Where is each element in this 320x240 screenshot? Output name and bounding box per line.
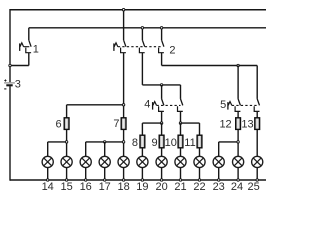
svg-text:23: 23	[213, 181, 225, 190]
svg-text:17: 17	[99, 181, 111, 190]
svg-text:21: 21	[174, 181, 186, 190]
svg-text:11: 11	[184, 137, 195, 149]
svg-text:7: 7	[113, 118, 119, 130]
svg-text:3: 3	[15, 78, 21, 90]
svg-text:18: 18	[117, 181, 129, 190]
svg-text:24: 24	[231, 181, 243, 190]
svg-text:20: 20	[155, 181, 167, 190]
svg-text:5: 5	[220, 99, 226, 111]
svg-text:2: 2	[169, 44, 175, 56]
svg-text:19: 19	[136, 181, 148, 190]
svg-text:15: 15	[60, 181, 72, 190]
svg-text:1: 1	[33, 43, 39, 55]
svg-text:16: 16	[80, 181, 92, 190]
svg-text:25: 25	[247, 181, 259, 190]
svg-text:12: 12	[219, 118, 231, 130]
svg-text:9: 9	[151, 137, 157, 149]
svg-text:4: 4	[144, 99, 150, 111]
svg-text:22: 22	[193, 181, 205, 190]
svg-text:13: 13	[241, 118, 253, 130]
svg-text:10: 10	[165, 137, 177, 149]
svg-text:14: 14	[42, 181, 54, 190]
svg-text:8: 8	[132, 137, 138, 149]
svg-text:6: 6	[55, 119, 61, 131]
